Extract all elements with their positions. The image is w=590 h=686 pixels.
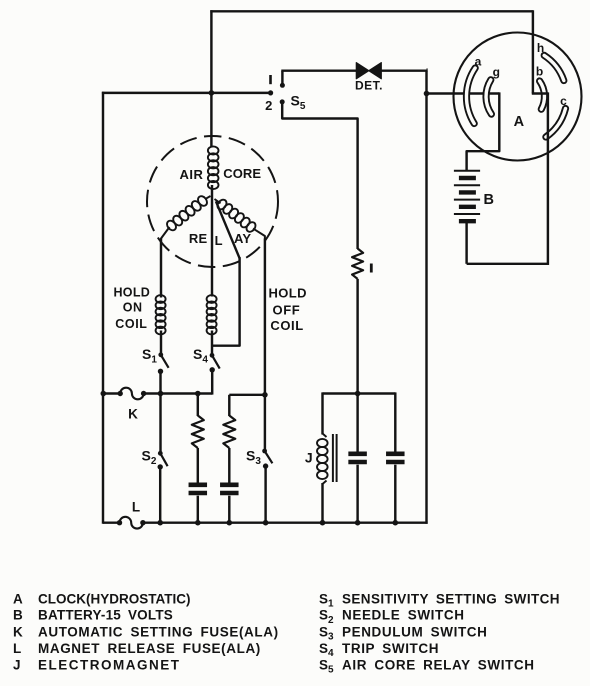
svg-text:A: A — [13, 591, 23, 606]
wire top rail right drop — [532, 10, 534, 93]
svg-text:K: K — [128, 407, 138, 422]
node bottom S2 — [157, 520, 163, 526]
label HOLD (off) — [268, 285, 306, 300]
relay top coil (air core winding) — [208, 146, 219, 189]
wire left rail — [102, 92, 104, 524]
label 1 — [269, 75, 272, 84]
svg-text:S2: S2 — [319, 608, 334, 626]
wire J lower lead — [321, 483, 323, 524]
svg-text:CLOCK(HYDROSTATIC): CLOCK(HYDROSTATIC) — [38, 591, 190, 606]
svg-text:S4: S4 — [193, 346, 208, 366]
wire clock inner right jog — [532, 92, 548, 94]
label AY — [234, 231, 251, 246]
svg-text:TRIP SWITCH: TRIP SWITCH — [342, 641, 439, 656]
svg-text:g: g — [493, 65, 500, 79]
wire DET to right drop — [381, 69, 427, 71]
svg-text:MAGNET RELEASE FUSE(ALA): MAGNET RELEASE FUSE(ALA) — [38, 641, 261, 656]
label S3 — [246, 447, 261, 467]
node bottom C4 — [393, 520, 399, 526]
switch S5 contact 2 — [280, 99, 285, 118]
node bottom J — [320, 520, 326, 526]
relay left winding — [161, 194, 211, 241]
electromagnet J core bars — [333, 434, 337, 482]
wire R2 top lead — [228, 395, 230, 416]
svg-text:S1: S1 — [142, 346, 157, 366]
wire R2 to C2 — [228, 448, 230, 483]
wire relay center vertical — [211, 185, 213, 297]
svg-text:COIL: COIL — [115, 317, 147, 331]
svg-text:SENSITIVITY SETTING SWITCH: SENSITIVITY SETTING SWITCH — [342, 591, 560, 606]
svg-text:HOLD: HOLD — [268, 285, 306, 300]
svg-text:ON: ON — [123, 301, 143, 315]
wire S5 contact2 to resistor I — [282, 118, 357, 250]
wire resistor I to J-line — [356, 279, 358, 395]
switch S1 — [158, 352, 169, 394]
wire C1 to bottom bus — [197, 496, 199, 524]
label L relay — [215, 233, 223, 248]
switch S2 — [158, 451, 168, 524]
svg-text:K: K — [13, 624, 23, 639]
label g — [493, 65, 500, 79]
svg-text:S3: S3 — [319, 624, 334, 642]
svg-text:L: L — [215, 233, 223, 248]
clock slot h — [544, 55, 564, 80]
wire relay right lead — [264, 239, 266, 396]
relay right winding — [215, 198, 265, 240]
svg-text:a: a — [475, 55, 482, 69]
node junction right segment — [262, 392, 268, 398]
node J-line resistor I junction — [355, 391, 361, 397]
node bus S1 junction — [158, 391, 164, 397]
wire needle lead — [211, 257, 240, 346]
label a — [475, 55, 482, 69]
label S1 — [142, 346, 157, 366]
svg-text:ELECTROMAGNET: ELECTROMAGNET — [38, 658, 181, 673]
svg-text:B: B — [484, 192, 494, 208]
svg-text:AY: AY — [234, 231, 251, 246]
wire top rail — [210, 10, 533, 12]
label CORE — [223, 166, 261, 181]
svg-text:S3: S3 — [246, 447, 261, 467]
wire left drop from top rail to relay coil — [210, 10, 212, 147]
wire right long drop — [427, 70, 428, 524]
label h — [537, 41, 544, 55]
label 2 — [265, 98, 272, 113]
wire J section top — [323, 392, 396, 394]
wire J upper lead — [321, 392, 323, 434]
svg-text:DET.: DET. — [355, 78, 383, 92]
resistor I — [352, 249, 363, 279]
hold-off coil winding — [207, 295, 217, 334]
wire R1 to C1 — [197, 448, 199, 483]
label AIR — [180, 167, 204, 182]
svg-text:PENDULUM SWITCH: PENDULUM SWITCH — [342, 624, 488, 639]
node bottom C3 — [355, 520, 361, 526]
wire relay left lead upper — [160, 239, 162, 298]
hold-on coil winding — [156, 295, 166, 334]
svg-text:NEEDLE SWITCH: NEEDLE SWITCH — [342, 608, 465, 623]
wire battery bottom run — [467, 263, 549, 265]
switch S4 — [210, 353, 220, 395]
label I — [370, 264, 373, 273]
relay needle arm — [216, 201, 240, 258]
legend right column — [319, 591, 560, 675]
switch S5 contact 1 — [280, 71, 285, 88]
svg-text:AIR CORE RELAY SWITCH: AIR CORE RELAY SWITCH — [342, 658, 535, 673]
svg-text:RE: RE — [189, 231, 208, 246]
wire C3 top lead — [356, 394, 358, 453]
label K — [128, 407, 138, 422]
svg-text:c: c — [560, 94, 567, 108]
svg-text:b: b — [536, 65, 543, 79]
node bottom S3 — [263, 520, 269, 526]
label RE — [189, 231, 208, 246]
detector DET bowtie — [356, 63, 381, 79]
capacitor C4 — [386, 454, 405, 462]
label L fuse — [132, 500, 140, 515]
node bottom C2 — [227, 520, 233, 526]
label S4 — [193, 346, 208, 366]
svg-text:J: J — [305, 450, 313, 466]
svg-text:S2: S2 — [142, 447, 157, 467]
svg-text:AIR: AIR — [180, 167, 204, 182]
label S2 — [142, 447, 157, 467]
wire C4 top lead — [394, 392, 396, 452]
wire C4 bottom lead — [394, 465, 396, 524]
svg-text:CORE: CORE — [223, 166, 261, 181]
label b — [536, 65, 543, 79]
label c — [560, 94, 567, 108]
label S5 — [291, 92, 306, 112]
node junction clock feed — [424, 91, 430, 97]
label DET. — [355, 78, 383, 92]
wire clock interior left leg — [467, 92, 500, 171]
svg-text:COIL: COIL — [270, 318, 303, 333]
resistor R2 — [223, 416, 235, 449]
svg-text:S5: S5 — [319, 658, 334, 676]
switch S5 pole dot — [268, 90, 273, 95]
wire hold-off coil to S4 — [211, 331, 213, 356]
clock slot c — [546, 109, 566, 138]
svg-text:S5: S5 — [291, 92, 306, 112]
node junction top-left bus — [209, 90, 215, 96]
wire battery bottom lead — [465, 223, 467, 264]
clock slot g — [486, 80, 491, 114]
fuse L — [117, 517, 146, 529]
wire main bus — [103, 392, 212, 394]
clock slot a — [466, 68, 475, 124]
clock A circle — [454, 33, 582, 161]
label OFF — [273, 303, 301, 318]
svg-text:AUTOMATIC SETTING FUSE(ALA): AUTOMATIC SETTING FUSE(ALA) — [38, 624, 279, 639]
svg-text:h: h — [537, 41, 544, 55]
label COIL (on) — [115, 317, 147, 331]
wire R2 top segment — [229, 394, 265, 396]
label ON — [123, 301, 143, 315]
battery B — [454, 171, 480, 221]
wire S3 upper lead — [264, 395, 266, 451]
label J — [305, 450, 313, 466]
label COIL (off) — [270, 318, 303, 333]
wire bottom bus — [103, 521, 428, 523]
svg-text:A: A — [514, 114, 525, 130]
wire C2 to bottom bus — [228, 496, 230, 524]
node bottom C1 — [195, 520, 201, 526]
fuse K — [118, 388, 147, 400]
node bus R1 junction — [195, 391, 201, 397]
wire junction to clock interior — [427, 92, 500, 94]
svg-text:B: B — [13, 608, 23, 623]
wire C3 bottom lead — [356, 465, 358, 524]
wire horizontal bus to S5 pole — [102, 92, 270, 94]
svg-text:L: L — [13, 641, 22, 656]
legend left column — [13, 591, 279, 672]
node bus-rail junction — [101, 391, 107, 397]
svg-text:J: J — [13, 658, 21, 673]
clock slot b — [540, 81, 545, 109]
label HOLD (on) — [113, 285, 150, 299]
wire R1 top lead — [197, 394, 199, 417]
wire S2 upper lead — [159, 394, 161, 454]
wire clock right drop to battery loop — [547, 92, 549, 265]
svg-text:BATTERY-15 VOLTS: BATTERY-15 VOLTS — [38, 608, 173, 623]
svg-text:OFF: OFF — [273, 303, 301, 318]
air-core relay dashed circle — [147, 136, 278, 267]
wire S5 contact1 to DET — [281, 69, 356, 71]
wire hold-on coil to S1 — [160, 331, 162, 355]
svg-text:2: 2 — [265, 98, 272, 113]
resistor R1 — [192, 416, 204, 449]
svg-text:S4: S4 — [319, 641, 334, 659]
switch S3 — [262, 449, 272, 524]
capacitor C1 — [189, 485, 208, 493]
capacitor C2 — [220, 485, 239, 493]
label A clock — [514, 114, 525, 130]
capacitor C3 — [348, 454, 367, 462]
label B battery — [484, 192, 494, 208]
svg-text:L: L — [132, 500, 140, 515]
electromagnet J winding — [317, 434, 328, 485]
svg-text:HOLD: HOLD — [113, 285, 150, 299]
